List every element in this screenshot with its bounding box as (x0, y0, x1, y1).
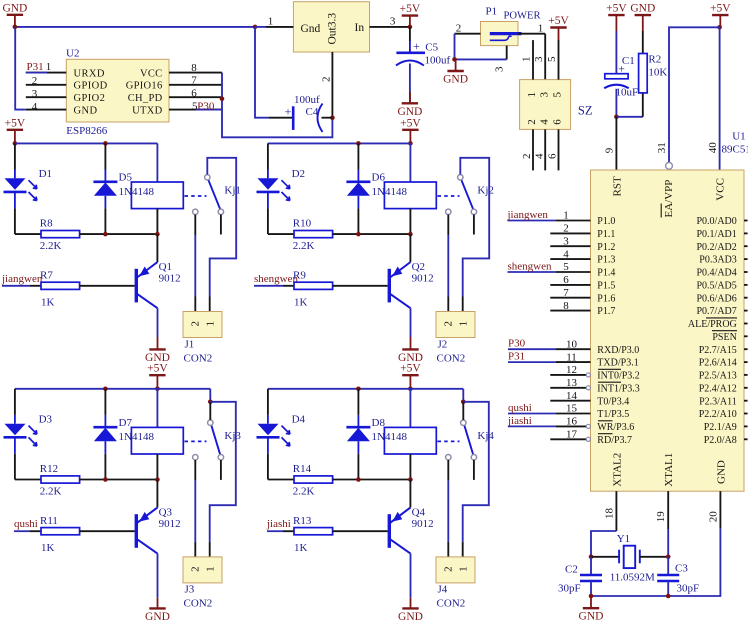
svg-text:INT1/P3.3: INT1/P3.3 (597, 383, 640, 394)
diode D8 triangle (347, 428, 370, 441)
wire resistor row to transistor node (80, 479, 158, 481)
U1 right pin stub P0.7/AD7 (744, 310, 748, 312)
wire LED to resistor row (14, 454, 16, 480)
svg-text:10uF: 10uF (616, 87, 639, 99)
U2 pin 4 GND wire (26, 109, 67, 111)
capacitor C4 curved plate (318, 104, 323, 132)
svg-text:7: 7 (191, 75, 197, 87)
U1 right pin stub P2.1/A9 (744, 425, 748, 427)
relay coil Kj3 body (131, 427, 183, 454)
U1 right pin stub P0.1/AD1 (744, 232, 748, 234)
U1 pin 2 stub (550, 232, 590, 234)
svg-text:Q2: Q2 (412, 261, 425, 273)
P1 pin 1 wire (518, 33, 545, 35)
U1 pin 10 wire (556, 348, 591, 350)
junction C2 bottom (589, 594, 594, 599)
svg-text:3: 3 (32, 88, 38, 100)
transistor Q3 collector (137, 539, 158, 553)
svg-text:R8: R8 (40, 218, 53, 230)
net label shengwen wire (254, 285, 283, 287)
net label P30 wire (508, 348, 556, 350)
wire rail to diode D6 (357, 143, 359, 169)
wire GND branch down to C4 (255, 27, 269, 118)
wire diode D6 anode down (357, 196, 359, 209)
svg-text:2: 2 (443, 566, 455, 572)
wire U2 GND pin to top rail (15, 27, 26, 109)
svg-text:3: 3 (538, 92, 550, 98)
U1 pin 13 stub (550, 387, 586, 389)
wire LED D4 anode (267, 415, 269, 424)
transistor Q1 collector (137, 294, 158, 308)
svg-text:4: 4 (538, 119, 550, 125)
capacitor C2 bottom plate (580, 580, 602, 582)
svg-text:5: 5 (563, 261, 569, 273)
svg-text:jiangwen: jiangwen (1, 273, 43, 285)
net label qushi wire (14, 530, 30, 532)
wire +5V to VCC pin 40 (719, 27, 721, 170)
wire +5V rail J1 (15, 142, 158, 144)
ground GND below P1 (443, 59, 468, 85)
svg-text:Kj1: Kj1 (224, 185, 241, 197)
wire +5V to EA/VPP (669, 27, 720, 163)
svg-text:P0.1/AD1: P0.1/AD1 (697, 229, 737, 240)
net label shengwen wire (508, 271, 557, 273)
LED D2 cathode bar (257, 191, 280, 194)
svg-text:9012: 9012 (159, 273, 181, 285)
relay Kj4 blade (464, 425, 473, 455)
LED D1 triangle (5, 178, 26, 190)
LED D1 arrow 2 (29, 192, 37, 201)
svg-text:5: 5 (546, 56, 558, 62)
switch P1 body (481, 22, 519, 46)
wire GND rail top (15, 26, 255, 28)
svg-text:P0.3AD3: P0.3AD3 (699, 255, 737, 266)
wire diode to resistor row (104, 454, 106, 480)
capacitor C1 curved plate (604, 85, 629, 89)
U1 pin 31 bubble (666, 162, 673, 169)
svg-text:P31: P31 (27, 61, 44, 73)
wire C1 bottom to RST node (615, 89, 617, 117)
svg-text:R14: R14 (293, 463, 312, 475)
U1 overline INT0 (598, 368, 621, 370)
relay Kj2 NC contact (446, 209, 451, 214)
U1 pin 11 wire (556, 361, 591, 363)
svg-text:P2.1/A9: P2.1/A9 (704, 422, 737, 433)
wire collector to GND (157, 308, 159, 337)
wire LED to resistor row (267, 454, 269, 480)
svg-text:+5V: +5V (147, 363, 168, 375)
resistor R11 body (41, 528, 80, 535)
svg-text:30pF: 30pF (677, 583, 700, 595)
junction +5V rail entry J3 (155, 387, 160, 392)
junction diode/resistor row (356, 232, 361, 237)
svg-text:U2: U2 (66, 48, 79, 60)
J4 pin 2 wire (447, 542, 449, 557)
wire LED to resistor row (267, 208, 269, 234)
capacitor C3 bottom plate (657, 580, 679, 582)
wire GND to R2 top (642, 31, 644, 54)
relay Kj3 NC contact (193, 455, 198, 460)
wire rail to relay coil Kj1 (156, 143, 158, 182)
svg-text:CON2: CON2 (437, 598, 466, 610)
wire to base resistor R7 (30, 285, 41, 287)
power +5V at SZ pin5 (548, 15, 569, 40)
svg-text:P1.1: P1.1 (597, 229, 615, 240)
wire node to transistor Q1 (156, 234, 158, 262)
svg-text:31: 31 (656, 142, 668, 153)
svg-text:Kj2: Kj2 (477, 185, 494, 197)
wire +5V rail J4 (268, 388, 463, 390)
svg-text:6: 6 (551, 119, 563, 125)
wire rail to LED D1 (14, 143, 16, 169)
transistor Q4 base bar (388, 514, 391, 548)
junction +5V rail entry J4 (408, 387, 413, 392)
power +5V above U1 VCC (710, 3, 731, 28)
svg-text:jiashi: jiashi (266, 518, 291, 530)
wire NC to J3 pin2 (194, 480, 196, 542)
ground GND below Q2 (398, 337, 423, 364)
wire resistor row to transistor node (80, 233, 158, 235)
power +5V for block J2 (400, 117, 421, 143)
U1 pin 16 wire (556, 425, 586, 427)
wire C5 bottom (409, 64, 411, 93)
junction diode/resistor row (103, 477, 108, 482)
wire LED D2 anode (267, 170, 269, 179)
svg-text:18: 18 (604, 508, 616, 520)
junction regulator input (408, 25, 413, 30)
net label jiashi wire (508, 425, 556, 427)
wire R2 bottom (642, 93, 644, 117)
svg-text:CON2: CON2 (184, 598, 213, 610)
U1 right pin stub P0.3AD3 (744, 258, 748, 260)
svg-text:P0.5/AD5: P0.5/AD5 (697, 281, 737, 292)
svg-text:R12: R12 (40, 463, 58, 475)
transistor Q2 emitter arrow (392, 267, 402, 277)
capacitor C4 plus plate (292, 106, 295, 130)
wire NC contact down (447, 460, 449, 480)
diode D6 cathode bar (346, 181, 370, 184)
svg-text:R10: R10 (293, 218, 312, 230)
wire LED D3 anode (14, 415, 16, 424)
relay Kj4 dashed link (438, 440, 460, 442)
wire relay coil bottom (409, 454, 411, 480)
svg-text:4: 4 (32, 101, 38, 113)
svg-text:P30: P30 (197, 100, 215, 112)
svg-text:C4: C4 (306, 106, 319, 118)
wire RST node to R2 (616, 116, 642, 118)
svg-text:9012: 9012 (159, 518, 181, 530)
junction regulator output node (330, 115, 335, 120)
capacitor C4 wire right (322, 117, 333, 119)
svg-text:VCC: VCC (140, 68, 163, 79)
svg-text:2: 2 (563, 223, 569, 235)
svg-text:VCC: VCC (714, 178, 726, 201)
relay Kj3 NO stub (220, 460, 222, 480)
relay Kj1 NC contact (193, 209, 198, 214)
relay Kj3 NO contact (218, 455, 223, 460)
junction coil/emitter node (408, 477, 413, 482)
wire rail to relay coil Kj2 (409, 143, 411, 182)
svg-text:XTAL2: XTAL2 (611, 453, 623, 487)
svg-text:jiashi: jiashi (507, 415, 532, 427)
U1 pin 4 stub (550, 258, 590, 260)
U1 pin 3 stub (550, 245, 590, 247)
wire base resistor to transistor (333, 285, 388, 287)
svg-text:C3: C3 (675, 563, 688, 575)
wire collector to GND (410, 554, 412, 598)
svg-text:9012: 9012 (412, 518, 434, 530)
IC U1 body (591, 170, 745, 491)
wire base resistor to transistor (333, 530, 388, 532)
svg-text:1: 1 (526, 92, 538, 98)
wire collector to GND (157, 554, 159, 598)
svg-text:Y1: Y1 (617, 533, 630, 545)
svg-text:100uf: 100uf (425, 54, 451, 66)
wire LED D2 cathode down (267, 192, 269, 209)
relay Kj3 common contact (208, 420, 213, 425)
wire rail to LED D4 (267, 389, 269, 415)
relay coil Kj2 body (384, 182, 436, 209)
svg-text:SZ: SZ (578, 104, 593, 118)
svg-text:3: 3 (563, 235, 569, 247)
svg-text:D2: D2 (292, 168, 305, 180)
wire diode D7 cathode (104, 415, 106, 427)
wire diode to resistor row (357, 454, 359, 480)
capacitor C5 plus plate (396, 51, 425, 54)
wire base resistor to transistor (80, 285, 135, 287)
regulator pin 2 wire (331, 52, 333, 118)
J1 pin 1 wire (209, 297, 211, 312)
svg-text:P2.0/A8: P2.0/A8 (704, 435, 737, 446)
transistor Q2 collector (390, 294, 411, 308)
capacitor C2 top plate (580, 574, 602, 576)
svg-text:P31: P31 (508, 351, 525, 363)
wire NC to J1 pin2 (194, 235, 196, 297)
U1 right pin stub P0.0/AD0 (744, 220, 748, 222)
transistor Q3 emitter (137, 507, 158, 523)
LED D4 arrow 1 (282, 426, 290, 435)
U1 pin 17 bubble (586, 437, 590, 441)
wire diode D5 cathode (104, 170, 106, 182)
svg-text:GND: GND (397, 106, 422, 118)
resistor R7 body (41, 282, 80, 289)
svg-text:9012: 9012 (412, 273, 434, 285)
connector J2 body (436, 312, 475, 338)
svg-text:EA/VPP: EA/VPP (663, 180, 675, 218)
ground GND below Q3 (145, 598, 170, 622)
svg-text:6: 6 (563, 274, 569, 286)
junction C3 top node (666, 555, 671, 560)
U1 right pin stub P2.6/A14 (744, 361, 748, 363)
svg-text:6: 6 (547, 153, 559, 159)
wire diode D7 anode down (104, 441, 106, 454)
svg-text:13: 13 (566, 377, 578, 389)
U2 pin 1 URXD wire (26, 72, 67, 74)
svg-text:RXD/P3.0: RXD/P3.0 (597, 345, 639, 356)
svg-text:RST: RST (611, 176, 623, 196)
U1 right pin stub P2.5/A13 (744, 374, 748, 376)
svg-text:P2.6/A14: P2.6/A14 (699, 358, 737, 369)
wire NC contact down (194, 460, 196, 480)
U1 pin 16 bubble (586, 424, 590, 428)
svg-text:1N4148: 1N4148 (372, 431, 408, 443)
svg-text:+: + (413, 39, 420, 53)
connector J4 body (436, 557, 475, 583)
junction rail diode D6 (356, 141, 361, 146)
junction coil/emitter node (155, 232, 160, 237)
U1 pin 15 wire (556, 413, 591, 415)
junction rail diode D5 (103, 141, 108, 146)
wire LED to resistor R8 (15, 233, 41, 235)
svg-text:1K: 1K (294, 297, 308, 309)
wire to base resistor R13 (283, 530, 294, 532)
wire relay coil bottom (156, 209, 158, 235)
relay Kj2 NO contact (471, 209, 476, 214)
svg-text:1: 1 (205, 321, 217, 327)
U2 pin 7 stub (169, 84, 223, 86)
U1 pin 19 XTAL1 wire (667, 491, 669, 529)
relay Kj3 dashed link (185, 440, 207, 442)
U1 right pin stub P2.4/A12 (744, 387, 748, 389)
svg-text:5: 5 (551, 92, 563, 98)
junction rail/common/J4 (461, 400, 466, 405)
connector SZ body (520, 80, 571, 130)
svg-text:GND: GND (579, 611, 604, 622)
regulator U3 body (293, 2, 369, 52)
wire diode D8 anode down (357, 441, 359, 454)
svg-text:Kj3: Kj3 (224, 430, 241, 442)
wire diode D5 anode down (104, 196, 106, 209)
svg-text:P2.2/A10: P2.2/A10 (699, 409, 737, 420)
wire LED to resistor R12 (15, 479, 41, 481)
svg-text:P0.0/AD0: P0.0/AD0 (697, 216, 737, 227)
wire LED D1 anode (14, 170, 16, 179)
U1 right pin stub P2.2/A10 (744, 413, 748, 415)
power +5V at regulator input (400, 3, 421, 27)
wire U2 VCC/CH_PD to 3.3V net (222, 73, 332, 138)
svg-text:D4: D4 (292, 414, 306, 426)
svg-text:P30: P30 (508, 338, 526, 350)
diode D5 triangle (94, 182, 117, 195)
wire LED to resistor R14 (268, 479, 294, 481)
module U2 body (66, 59, 169, 122)
wire LED to resistor row (14, 208, 16, 234)
svg-text:1K: 1K (41, 297, 55, 309)
transistor Q2 base bar (388, 269, 391, 303)
wire rail to relay coil Kj3 (156, 389, 158, 428)
LED D3 triangle (5, 424, 26, 436)
junction GND rail / C4 branch (253, 25, 258, 30)
J2 pin 1 wire (462, 297, 464, 312)
svg-text:P0.6/AD6: P0.6/AD6 (697, 293, 737, 304)
ground GND below C5 (397, 92, 422, 118)
U1 right pin stub PSEN (744, 335, 748, 337)
relay Kj3 blade (211, 425, 220, 455)
svg-text:D6: D6 (372, 172, 386, 184)
wire NC contact down (194, 215, 196, 235)
wire diode D8 cathode (357, 415, 359, 427)
resistor R10 body (294, 231, 333, 238)
resistor R2 body (639, 54, 648, 93)
U1 right pin stub ALE/PROG (744, 323, 748, 325)
svg-text:4: 4 (534, 153, 546, 159)
svg-text:D5: D5 (119, 172, 133, 184)
svg-text:10K: 10K (648, 66, 667, 78)
wire C2 top (590, 557, 592, 575)
svg-text:P1.6: P1.6 (597, 293, 615, 304)
J3 pin 1 wire (209, 542, 211, 557)
svg-text:GND: GND (630, 3, 655, 15)
junction rail diode D7 (103, 387, 108, 392)
resistor R12 body (41, 476, 80, 483)
wire to base resistor R11 (30, 530, 41, 532)
wire junction loop to J3 pin1 (210, 402, 236, 542)
wire rail to diode D8 (357, 389, 359, 415)
svg-text:11: 11 (566, 351, 577, 363)
svg-text:C5: C5 (425, 41, 438, 53)
svg-text:XTAL1: XTAL1 (663, 453, 675, 487)
wire NC to J4 pin2 (447, 480, 449, 542)
wire rail to LED D3 (14, 389, 16, 415)
wire to base resistor R9 (283, 285, 294, 287)
svg-text:+: + (285, 105, 292, 119)
svg-text:GND: GND (716, 460, 728, 484)
svg-text:Gnd: Gnd (301, 23, 321, 35)
P1 pin 3 wire (506, 46, 508, 60)
LED D1 arrow 1 (29, 180, 37, 189)
wire LED to resistor R10 (268, 233, 294, 235)
crystal Y1 body (624, 546, 636, 568)
junction rail diode D8 (356, 387, 361, 392)
relay Kj1 NO stub (220, 215, 222, 235)
resistor R13 body (294, 528, 333, 535)
wire NC to J2 pin2 (447, 235, 449, 297)
U1 pin 6 stub (550, 284, 590, 286)
svg-text:16: 16 (566, 416, 578, 428)
svg-text:shengwen: shengwen (508, 260, 552, 272)
U1 right pin stub P0.2/AD2 (744, 245, 748, 247)
diode D7 cathode bar (93, 426, 117, 429)
svg-text:GPIO2: GPIO2 (74, 93, 106, 104)
crystal Y1 right plate (639, 550, 641, 564)
relay Kj1 dashed link (185, 195, 207, 197)
U1 pin 13 bubble (586, 386, 590, 390)
svg-text:+5V: +5V (548, 15, 569, 27)
junction C2 top node (589, 555, 594, 560)
svg-text:1K: 1K (41, 542, 55, 554)
net label P30 wire overlay (196, 109, 222, 111)
relay Kj2 dashed link (438, 195, 460, 197)
svg-text:P2.5/A13: P2.5/A13 (699, 371, 737, 382)
diode D7 triangle (94, 428, 117, 441)
junction U2 CH_PD pin (220, 97, 225, 102)
switch P1 lever (490, 36, 512, 40)
net label P31 wire overlay (26, 72, 47, 74)
wire to C5 (409, 27, 411, 41)
relay Kj1 common contact (205, 175, 210, 180)
svg-text:J2: J2 (438, 338, 448, 350)
ground GND below Q4 (398, 598, 423, 622)
LED D2 arrow 1 (282, 180, 290, 189)
svg-text:P2.7/A15: P2.7/A15 (699, 345, 737, 356)
svg-text:2: 2 (32, 75, 38, 87)
junction rail/common/J3 (208, 400, 213, 405)
J1 pin 2 wire (194, 297, 196, 312)
svg-text:P2.3/A11: P2.3/A11 (699, 396, 737, 407)
svg-text:7: 7 (563, 287, 569, 299)
junction +5V rail entry J1 (13, 141, 18, 146)
U1 pin 17 stub (550, 438, 586, 440)
